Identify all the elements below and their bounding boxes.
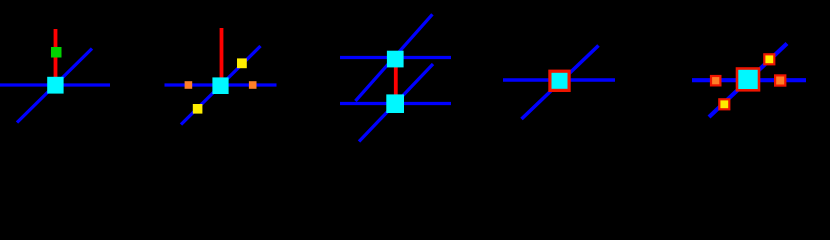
wire blue diagonal G1	[17, 49, 92, 123]
wire red vertical G1	[54, 29, 58, 84]
graph 1	[0, 29, 110, 123]
node orange square red border G5 right	[775, 75, 785, 85]
node yellow square red border G5 lower-left	[719, 99, 729, 109]
wire blue diagonal G5	[709, 44, 787, 118]
node yellow square G2 upper-right	[237, 58, 247, 68]
wire blue horizontal G4	[503, 78, 615, 82]
node green square G1	[51, 47, 62, 58]
wire blue diagonal G4	[522, 46, 599, 120]
node cyan center with red border G4	[550, 71, 569, 90]
node yellow square G2 lower-left	[193, 104, 203, 114]
wire blue diagonal G3 lower	[359, 64, 433, 142]
wire blue horizontal G1	[0, 83, 110, 86]
node orange square G2 left	[185, 81, 193, 89]
node orange square G2 right	[249, 81, 257, 89]
wire red vertical connector G3	[394, 59, 398, 103]
wire red vertical G2	[220, 28, 224, 85]
node cyan lower G3	[386, 94, 404, 113]
wire blue horizontal G3 upper	[340, 56, 451, 59]
node yellow square red border G5 upper-right	[764, 54, 774, 64]
wire blue horizontal G2	[165, 83, 277, 86]
node cyan upper G3	[387, 51, 404, 68]
wire blue diagonal G3 upper	[355, 14, 432, 101]
node cyan center G1	[47, 77, 63, 94]
wire blue horizontal G5	[692, 78, 806, 82]
wire blue horizontal G3 lower	[340, 102, 451, 105]
node cyan center G2	[212, 77, 228, 94]
node cyan center red border G5	[737, 69, 759, 91]
node orange square red border G5 left	[711, 76, 720, 85]
graph 4	[503, 46, 615, 120]
graph 2	[165, 28, 277, 125]
graph 5	[692, 44, 806, 118]
graph 3	[340, 14, 451, 141]
wire blue diagonal G2	[181, 46, 261, 125]
